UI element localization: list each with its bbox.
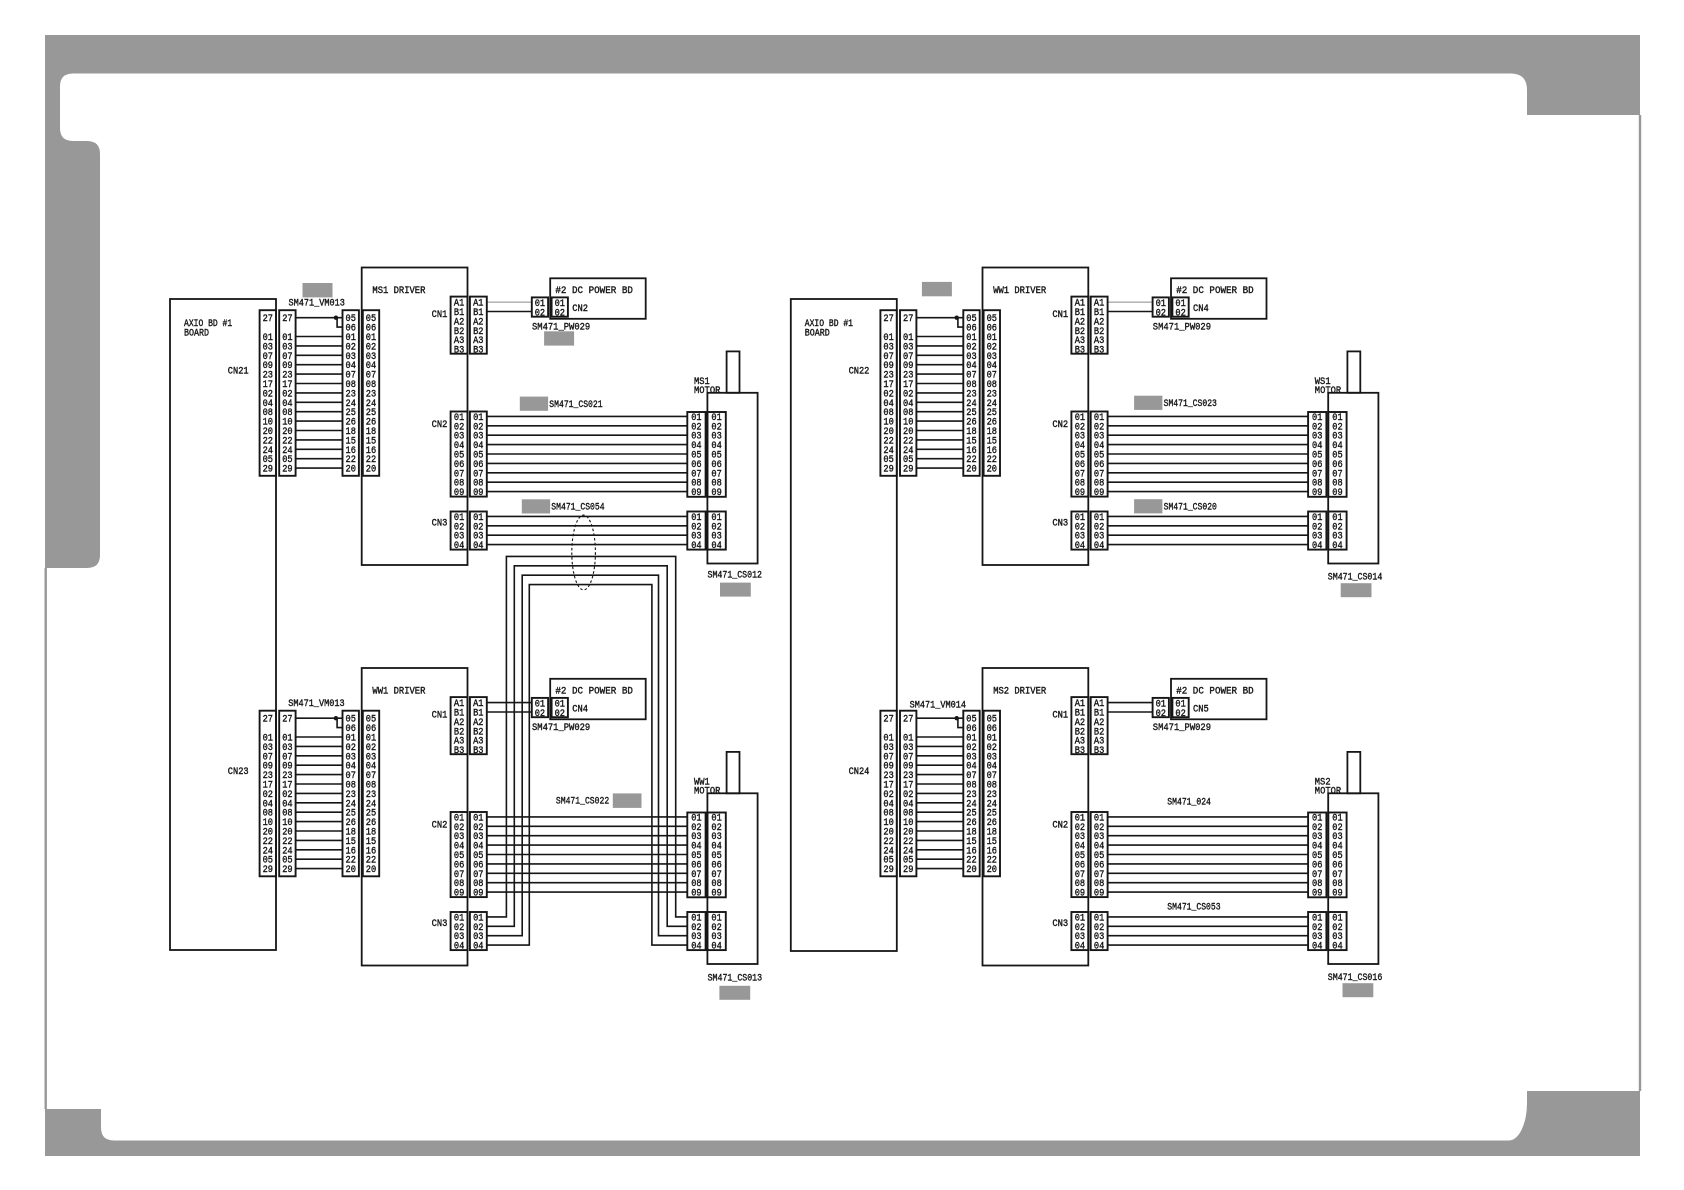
wire CN21-27 to SM471_VM013-05 (top-left) [296,317,343,319]
svg-text:20: 20 [346,865,356,876]
wire CN1-B1 to CN4-02 (bottom-left) [487,711,532,713]
svg-text:02: 02 [1175,308,1185,319]
connector pin column SM471_VM013 driver side (bottom-left) [363,711,379,877]
wire CN24-02 to SM471_VM014-23 (bottom-right) [916,792,963,794]
label WW1 MOTOR (bottom-left) [694,777,720,797]
gray redaction box left of SM471_CS023 (top-right) [1134,396,1162,410]
connector pin column motor 4-pin harness side (bottom-right) [1308,912,1326,953]
wire CN2-09 to motor-09 (bottom-left) [487,891,688,893]
wire CN1-B1 to CN5-02 (bottom-right) [1108,711,1153,713]
wire CN1-A1 to CN4-01 (bottom-left) [487,702,532,704]
svg-text:MOTOR: MOTOR [694,386,720,397]
svg-text:09: 09 [691,488,701,499]
label CN2 (top-left) [432,420,448,431]
connector pin column motor 9-pin motor side (top-left) [708,412,726,499]
svg-text:09: 09 [473,488,483,499]
svg-text:SM471_CS053: SM471_CS053 [1167,902,1220,913]
svg-text:MOTOR: MOTOR [1315,386,1341,397]
wire CN3-03 to motor-03 (bottom-right) [1108,935,1309,937]
svg-text:CN4: CN4 [1193,304,1209,315]
cable label SM471_CS054 (top-left) [551,503,604,514]
label SM471_PW029 (top-right) [1153,323,1211,334]
connector pin column SM471_VM013 harness side (bottom-left) [343,711,359,877]
connector pin column CN21 harness side (top-left) [279,310,295,476]
board AXIO BD #1 (right) [791,299,897,951]
svg-text:29: 29 [883,865,893,876]
wire CN23-07 to SM471_VM013-03 (bottom-left) [296,755,343,757]
wire CN3-04 to motor-04 (bottom-right) [1108,944,1309,946]
svg-text:20: 20 [366,865,376,876]
wire CN22-24 to SM471_VM013-16 (top-right) [916,448,963,450]
wire CN23-02 to SM471_VM013-23 (bottom-left) [296,792,343,794]
svg-text:27: 27 [263,314,273,325]
svg-text:02: 02 [555,308,565,319]
svg-text:29: 29 [903,465,913,476]
svg-text:CN5: CN5 [1193,704,1209,715]
svg-text:CN2: CN2 [1052,420,1068,431]
label CN1 (bottom-left) [432,710,448,721]
wire CN21-24 to SM471_VM013-16 (top-left) [296,448,343,450]
wire CN2-03 to motor-03 (bottom-left) [487,835,688,837]
connector pin column CN22 harness side (top-right) [900,310,916,476]
label CN2 (top-right) [1052,420,1068,431]
wire junction to SM471_VM014-06 (bottom-right) [958,718,963,727]
connector pin column CN2 harness side (bottom-left) [470,812,487,900]
wire CN3-04 to motor-04 (top-right) [1108,544,1309,546]
WW1 DRIVER board outline (top-right) [983,268,1089,566]
wire CN22-07 to SM471_VM013-03 (top-right) [916,354,963,356]
junction dot pin27 (bottom-left) [334,716,338,720]
svg-text:B3: B3 [454,346,464,357]
label MS2 MOTOR (bottom-right) [1315,777,1341,797]
svg-text:04: 04 [454,541,464,552]
wire CN24-22 to SM471_VM014-15 (bottom-right) [916,839,963,841]
svg-text:27: 27 [883,715,893,726]
wire CN23-23 to SM471_VM013-07 (bottom-left) [296,774,343,776]
connector pin column SM471_VM013 harness side (top-left) [343,310,359,476]
wire CN23-09 to SM471_VM013-04 (bottom-left) [296,764,343,766]
wire CN24-04 to SM471_VM014-24 (bottom-right) [916,802,963,804]
connector pin column CN3 driver side (bottom-right) [1071,912,1088,953]
connector pin column CN1 harness side (top-right) [1091,297,1108,357]
wire junction to SM471_VM013-06 (top-right) [958,318,963,327]
svg-text:#2 DC POWER BD: #2 DC POWER BD [555,687,633,698]
svg-text:B3: B3 [473,746,483,757]
connector pin column CN3 driver side (bottom-left) [451,912,468,953]
label CN1 (top-left) [432,310,448,321]
connector pin column SM471_VM014 driver side (bottom-right) [984,711,1000,877]
junction dot pin27 (bottom-right) [955,716,959,720]
wire CN24-23 to SM471_VM014-07 (bottom-right) [916,774,963,776]
wire CN22-10 to SM471_VM013-26 (top-right) [916,420,963,422]
connector pin column CN4 board side (bottom-left) [552,698,568,720]
label #2 DC POWER BD (top-right) [1176,286,1254,297]
wire CN23-03 to SM471_VM013-02 (bottom-left) [296,745,343,747]
svg-text:04: 04 [473,541,483,552]
connector pin column motor 4-pin motor side (top-left) [708,512,726,553]
wire CN2-09 to motor-09 (top-left) [487,491,688,493]
label SM471_VM013 (bottom-left) [288,699,344,710]
connector pin column CN24 board side (bottom-right) [880,711,896,877]
gray redaction box left of SM471_CS021 (top-left) [520,397,548,411]
svg-text:29: 29 [282,865,292,876]
svg-text:SM471_CS016: SM471_CS016 [1328,973,1383,984]
wire CN1-B1 to CN4-02 (top-right) [1108,311,1153,313]
label CN3 (top-right) [1052,518,1068,529]
connector pin column motor 9-pin motor side (top-right) [1328,412,1346,499]
connector pin column motor 4-pin harness side (top-right) [1308,512,1326,553]
svg-text:CN21: CN21 [228,366,249,377]
wire CN22-27 to SM471_VM013-05 (top-right) [916,317,963,319]
connector pin column motor 4-pin motor side (top-right) [1328,512,1346,553]
MS2 DRIVER board outline (bottom-right) [983,668,1089,966]
wire CN2-05 to motor-05 (top-right) [1108,453,1309,455]
wire CN21-20 to SM471_VM013-18 (top-left) [296,430,343,432]
wire CN24-03 to SM471_VM014-02 (bottom-right) [916,745,963,747]
cable label SM471_CS013 (bottom-left) [708,973,763,984]
connector pin column SM471_VM013 harness side (top-right) [963,310,979,476]
label SM471_VM014 (bottom-right) [910,701,966,712]
label CN22 [849,366,870,377]
gray redaction box left of SM471_CS054 (top-left) [522,499,550,513]
wire CN24-09 to SM471_VM014-04 (bottom-right) [916,764,963,766]
wire CN2-06 to motor-06 (bottom-left) [487,863,688,865]
label WW1 DRIVER (top-right) [993,286,1046,297]
cable label SM471_CS022 (bottom-left) [556,796,609,807]
wire CN24-29 to SM471_VM014-20 (bottom-right) [916,868,963,870]
connector pin column CN1 driver side (top-left) [451,297,468,357]
label CN1 (bottom-right) [1052,710,1068,721]
connector pin column motor 4-pin motor side (bottom-right) [1328,912,1346,953]
wire CN22-03 to SM471_VM013-02 (top-right) [916,345,963,347]
svg-text:09: 09 [454,889,464,900]
connector pin column CN2 harness side (bottom-right) [1091,812,1108,900]
svg-text:B3: B3 [473,346,483,357]
wire CN2-02 to motor-02 (top-left) [487,425,688,427]
connector pin column CN1 harness side (bottom-right) [1091,697,1108,757]
wire CN21-17 to SM471_VM013-08 (top-left) [296,383,343,385]
wire CN21-10 to SM471_VM013-26 (top-left) [296,420,343,422]
wire CN23-10 to SM471_VM013-26 (bottom-left) [296,821,343,823]
wire CN3-01 to motor-01 (top-right) [1108,515,1309,517]
label MS1 MOTOR (top-left) [694,377,720,397]
svg-text:29: 29 [282,465,292,476]
#2 DC POWER BD outline (top-left) [550,278,646,319]
wire CN3-01 routed loop to motor-01 (bottom-left) [487,556,688,917]
cable label SM471_CS021 (top-left) [549,400,602,411]
svg-text:#2 DC POWER BD: #2 DC POWER BD [555,286,633,297]
svg-text:09: 09 [1312,488,1322,499]
svg-text:CN4: CN4 [572,704,588,715]
connector pin column CN3 harness side (top-right) [1091,512,1108,553]
wire CN22-09 to SM471_VM013-04 (top-right) [916,364,963,366]
wire CN23-01 to SM471_VM013-01 (bottom-left) [296,736,343,738]
label CN2 (bottom-left) [432,820,448,831]
svg-text:20: 20 [966,865,976,876]
connector pin column CN3 driver side (top-left) [451,512,468,553]
svg-text:04: 04 [1332,541,1342,552]
wire CN2-01 to motor-01 (bottom-left) [487,816,688,818]
svg-text:BOARD: BOARD [184,328,209,339]
svg-text:20: 20 [987,865,997,876]
wire CN3-02 routed loop to motor-02 (bottom-left) [487,566,688,927]
svg-text:09: 09 [711,488,721,499]
MS1 DRIVER board outline (top-left) [362,268,468,566]
cable label SM471_CS023 (top-right) [1164,399,1217,410]
svg-text:SM471_CS054: SM471_CS054 [551,503,604,514]
svg-text:B3: B3 [1075,346,1085,357]
label CN24 [849,767,870,778]
gray redaction box below SM471_CS013 (bottom-left) [719,986,750,1000]
label #2 DC POWER BD (bottom-left) [555,687,633,698]
WW1 DRIVER board outline (bottom-left) [362,668,468,966]
connector pin column CN24 harness side (bottom-right) [900,711,916,877]
connector pin column CN3 harness side (top-left) [470,512,487,553]
gray redaction box below SM471_CS016 (bottom-right) [1343,983,1374,997]
svg-text:27: 27 [903,715,913,726]
wire CN3-02 to motor-02 (top-right) [1108,525,1309,527]
svg-text:02: 02 [1175,709,1185,720]
wire CN23-27 to SM471_VM013-05 (bottom-left) [296,717,343,719]
connector pin column CN3 driver side (top-right) [1071,512,1088,553]
connector pin column CN5 harness side (bottom-right) [1153,698,1169,720]
svg-text:CN1: CN1 [432,710,448,721]
label CN1 (top-right) [1052,310,1068,321]
label WW1 DRIVER (bottom-left) [372,686,425,697]
label AXIO BD #1 BOARD (right) [805,319,853,339]
cable label SM471_CS020 (top-right) [1164,503,1217,514]
svg-text:CN3: CN3 [1052,518,1068,529]
label CN4 power connector (bottom-left) [572,704,588,715]
cable label SM471_CS016 (bottom-right) [1328,973,1383,984]
wire CN23-08 to SM471_VM013-25 (bottom-left) [296,811,343,813]
svg-text:B3: B3 [1094,346,1104,357]
connector pin column CN2 harness side (top-left) [532,297,548,319]
svg-text:09: 09 [473,889,483,900]
wire CN3-01 to motor-01 (bottom-right) [1108,916,1309,918]
svg-text:20: 20 [966,465,976,476]
wire CN24-01 to SM471_VM014-01 (bottom-right) [916,736,963,738]
wire CN2-04 to motor-04 (bottom-left) [487,844,688,846]
svg-text:09: 09 [1094,889,1104,900]
wire CN24-05 to SM471_VM014-22 (bottom-right) [916,858,963,860]
svg-text:29: 29 [883,465,893,476]
board AXIO BD #1 (left) [170,299,276,950]
label CN2 (bottom-right) [1052,820,1068,831]
WW1 MOTOR outline (bottom-left) [707,752,757,964]
connector pin column motor 4-pin motor side (bottom-left) [708,912,726,953]
svg-text:CN2: CN2 [1052,820,1068,831]
connector pin column CN2 driver side (bottom-right) [1071,812,1088,900]
wire CN2-04 to motor-04 (top-left) [487,444,688,446]
svg-text:MS1 DRIVER: MS1 DRIVER [372,286,425,297]
connector pin column SM471_VM014 harness side (bottom-right) [963,711,979,877]
gray redaction box left of SM471_CS020 (top-right) [1134,499,1162,513]
wire CN2-02 to motor-02 (top-right) [1108,425,1309,427]
svg-text:CN3: CN3 [432,518,448,529]
connector pin column CN1 driver side (bottom-right) [1071,697,1088,757]
page template: bottom gray bar with corner blocks [45,1091,1640,1156]
wire CN21-02 to SM471_VM013-23 (top-left) [296,392,343,394]
svg-text:SM471_CS012: SM471_CS012 [708,571,763,582]
connector pin column CN3 harness side (bottom-right) [1091,912,1108,953]
wire CN22-22 to SM471_VM013-15 (top-right) [916,439,963,441]
svg-text:B3: B3 [1075,746,1085,757]
svg-text:29: 29 [903,865,913,876]
connector pin column CN21 board side (top-left) [260,310,276,476]
wire CN24-10 to SM471_VM014-26 (bottom-right) [916,821,963,823]
label AXIO BD #1 BOARD (left) [184,319,232,339]
#2 DC POWER BD outline (bottom-right) [1171,679,1267,720]
wire CN2-07 to motor-07 (bottom-left) [487,872,688,874]
svg-text:27: 27 [883,314,893,325]
connector pin column SM471_VM013 driver side (top-left) [363,310,379,476]
svg-text:CN22: CN22 [849,366,870,377]
wire CN24-17 to SM471_VM014-08 (bottom-right) [916,783,963,785]
wire CN3-03 routed loop to motor-03 (bottom-left) [487,575,688,936]
wire CN23-24 to SM471_VM013-16 (bottom-left) [296,849,343,851]
wire CN2-02 to motor-02 (bottom-left) [487,825,688,827]
svg-text:04: 04 [711,541,721,552]
wire CN3-02 to motor-02 (top-left) [487,525,688,527]
connector pin column CN2 harness side (top-right) [1091,412,1108,500]
wire CN2-07 to motor-07 (bottom-right) [1108,872,1309,874]
svg-text:02: 02 [1156,709,1166,720]
label CN21 [228,366,249,377]
svg-text:09: 09 [711,889,721,900]
wire CN21-23 to SM471_VM013-07 (top-left) [296,373,343,375]
MS2 MOTOR outline (bottom-right) [1328,752,1378,964]
svg-text:SM471_CS021: SM471_CS021 [549,400,602,411]
label CN4 power connector (top-right) [1193,304,1209,315]
label MS1 DRIVER (top-left) [372,286,425,297]
svg-text:20: 20 [366,465,376,476]
connector pin column CN1 driver side (top-right) [1071,297,1088,357]
svg-text:20: 20 [987,465,997,476]
wire CN2-06 to motor-06 (top-right) [1108,462,1309,464]
svg-text:MOTOR: MOTOR [694,787,720,798]
label MS2 DRIVER (bottom-right) [993,686,1046,697]
svg-text:#2 DC POWER BD: #2 DC POWER BD [1176,687,1254,698]
label CN3 (bottom-left) [432,919,448,930]
svg-text:CN1: CN1 [1052,310,1068,321]
connector pin column CN2 harness side (top-left) [470,412,487,500]
svg-text:SM471_VM014: SM471_VM014 [910,701,966,712]
connector pin column CN1 driver side (bottom-left) [451,697,468,757]
label SM471_PW029 (bottom-right) [1153,723,1211,734]
connector pin column motor 9-pin harness side (top-left) [687,412,705,499]
svg-text:SM471_VM013: SM471_VM013 [288,699,344,710]
connector pin column CN2 board side (top-left) [552,297,568,319]
svg-text:09: 09 [1075,488,1085,499]
wire CN2-01 to motor-01 (bottom-right) [1108,816,1309,818]
connector pin column CN3 harness side (bottom-left) [470,912,487,953]
svg-text:29: 29 [263,865,273,876]
wire CN2-04 to motor-04 (top-right) [1108,444,1309,446]
svg-text:SM471_CS013: SM471_CS013 [708,973,763,984]
svg-text:09: 09 [691,889,701,900]
wire CN24-08 to SM471_VM014-25 (bottom-right) [916,811,963,813]
wire CN3-02 to motor-02 (bottom-right) [1108,925,1309,927]
connector pin column motor 9-pin motor side (bottom-right) [1328,813,1346,900]
wire CN2-03 to motor-03 (bottom-right) [1108,835,1309,837]
wire CN22-05 to SM471_VM013-22 (top-right) [916,458,963,460]
connector pin column CN4 harness side (top-right) [1153,297,1169,319]
svg-text:04: 04 [1075,541,1085,552]
page template: top gray bar with left column and right tab [45,35,1640,568]
gray redaction box above SM471_VM013 (top-right) [922,282,952,296]
label CN3 (bottom-right) [1052,919,1068,930]
svg-text:20: 20 [346,465,356,476]
svg-text:#2 DC POWER BD: #2 DC POWER BD [1176,286,1254,297]
wire CN1-B1 to CN2-02 (top-left) [487,311,532,313]
wire CN3-01 to motor-01 (top-left) [487,515,688,517]
wire CN2-01 to motor-01 (top-right) [1108,415,1309,417]
wire CN21-01 to SM471_VM013-01 (top-left) [296,336,343,338]
svg-text:02: 02 [1156,308,1166,319]
wire CN21-03 to SM471_VM013-02 (top-left) [296,345,343,347]
connector pin column motor 9-pin motor side (bottom-left) [708,813,726,900]
junction dot pin27 (top-right) [955,316,959,320]
wire CN2-05 to motor-05 (bottom-right) [1108,854,1309,856]
wire CN2-07 to motor-07 (top-left) [487,472,688,474]
connector pin column CN23 harness side (bottom-left) [279,711,295,877]
connector pin column CN4 harness side (bottom-left) [532,698,548,720]
svg-text:09: 09 [1075,889,1085,900]
wire CN22-08 to SM471_VM013-25 (top-right) [916,411,963,413]
label CN23 [228,767,249,778]
cable label SM471_024 (bottom-right) [1167,798,1211,809]
label CN3 (top-left) [432,518,448,529]
svg-text:CN24: CN24 [849,767,870,778]
connector pin column motor 9-pin harness side (bottom-right) [1308,813,1326,900]
wire CN21-04 to SM471_VM013-24 (top-left) [296,401,343,403]
label #2 DC POWER BD (top-left) [555,286,633,297]
svg-text:27: 27 [903,314,913,325]
wire CN23-05 to SM471_VM013-22 (bottom-left) [296,858,343,860]
svg-text:SM471_VM013: SM471_VM013 [289,298,345,309]
svg-text:CN2: CN2 [572,304,588,315]
svg-text:04: 04 [1312,541,1322,552]
connector pin column CN5 board side (bottom-right) [1172,698,1188,720]
connector pin column motor 4-pin harness side (top-left) [687,512,705,553]
gray redaction box below SM471_CS012 (top-left) [720,583,751,597]
gray redaction box below SM471_CS014 (top-right) [1341,583,1372,597]
svg-text:04: 04 [1332,942,1342,953]
label #2 DC POWER BD (bottom-right) [1176,687,1254,698]
svg-text:09: 09 [1332,488,1342,499]
wire CN21-22 to SM471_VM013-15 (top-left) [296,439,343,441]
svg-text:CN1: CN1 [1052,710,1068,721]
label SM471_VM013 (top-left) [289,298,345,309]
svg-text:SM471_CS023: SM471_CS023 [1164,399,1217,410]
svg-text:WW1 DRIVER: WW1 DRIVER [372,686,425,697]
wire CN2-08 to motor-08 (bottom-left) [487,882,688,884]
svg-text:09: 09 [1332,889,1342,900]
gray redaction box right of SM471_CS022 (bottom-left) [613,793,642,808]
wire CN2-04 to motor-04 (bottom-right) [1108,844,1309,846]
svg-text:04: 04 [691,942,701,953]
wire CN22-17 to SM471_VM013-08 (top-right) [916,383,963,385]
svg-text:B3: B3 [454,746,464,757]
wire CN2-05 to motor-05 (top-left) [487,453,688,455]
label CN5 power connector (bottom-right) [1193,704,1209,715]
connector pin column CN2 driver side (top-right) [1071,412,1088,500]
connector pin column CN1 harness side (top-left) [470,297,487,357]
svg-text:09: 09 [1312,889,1322,900]
wire CN22-01 to SM471_VM013-01 (top-right) [916,336,963,338]
svg-text:27: 27 [282,715,292,726]
